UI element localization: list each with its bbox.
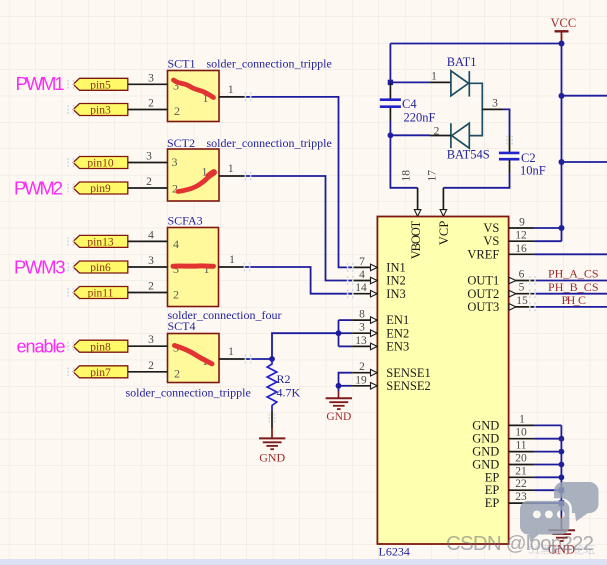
pin 1 GND stub — [509, 413, 535, 425]
junction GND11 — [559, 449, 565, 455]
svg-text:PWM3: PWM3 — [14, 257, 66, 278]
svg-text:IN1: IN1 — [386, 261, 405, 275]
svg-text:SCT1: SCT1 — [168, 57, 196, 71]
junction GND20 — [559, 462, 565, 468]
svg-text:3: 3 — [148, 334, 154, 346]
off-grid marker SCT4 out — [245, 355, 252, 364]
junction EN2 — [336, 330, 342, 336]
wire R2 to ground — [271, 411, 273, 438]
pin name EP (21) — [485, 470, 500, 484]
pin name EN2 — [386, 326, 409, 340]
wire GND1 to bus — [534, 424, 561, 426]
svg-text:pin10: pin10 — [87, 158, 113, 170]
pin name VREF — [467, 247, 499, 261]
bottom window strip — [0, 559, 607, 565]
wire EN1 stub — [339, 319, 353, 321]
pin stub SCT1.1 output — [219, 84, 246, 97]
off-grid marker OUT2 — [529, 289, 536, 298]
svg-text:EP: EP — [485, 470, 500, 484]
svg-text:pin7: pin7 — [90, 367, 111, 379]
svg-text:2: 2 — [359, 361, 365, 373]
pin 3 EN2 stub — [352, 322, 377, 337]
svg-text:PH_C: PH_C — [562, 293, 587, 307]
svg-text:solder_connection_tripple: solder_connection_tripple — [126, 386, 251, 400]
pin 4 IN2 stub — [352, 269, 377, 284]
pin stub BAT54S pin3 — [482, 97, 503, 109]
pin name IN1 — [386, 261, 405, 275]
wire top horizontal VCC to C4 branch — [390, 43, 561, 45]
junction C4 bottom / BAT54S pin2 — [388, 132, 394, 138]
wire C4 left rail top — [389, 44, 391, 83]
off-grid marker OUT1 — [529, 276, 536, 285]
svg-text:EN2: EN2 — [386, 326, 409, 340]
svg-text:GND: GND — [326, 411, 351, 423]
port pin13 — [73, 235, 128, 248]
svg-text:3: 3 — [148, 255, 154, 267]
svg-text:GND: GND — [472, 432, 499, 446]
wire EN3 stub — [339, 345, 353, 347]
pin name EP (22) — [485, 483, 500, 497]
label enable — [17, 337, 66, 357]
off-grid marker SCT2 out — [245, 172, 252, 181]
wire EP21 to bus — [534, 476, 561, 478]
wire pin10 to SCT2.3 — [128, 151, 168, 163]
junction GND10 — [559, 436, 565, 442]
pin 12 VS stub — [509, 230, 535, 242]
wire BAT1 pin1 — [390, 70, 451, 82]
red marker scribble on SCT1 — [174, 80, 214, 98]
solder jumper SCT2 — [167, 136, 219, 201]
svg-text:pin13: pin13 — [87, 237, 113, 249]
wire pin9 to SCT2.2 — [128, 176, 168, 188]
svg-text:BAT1: BAT1 — [447, 55, 477, 69]
svg-text:SENSE2: SENSE2 — [386, 379, 430, 393]
pin name SENSE2 — [386, 379, 430, 393]
red marker scribble on SCT2 — [178, 172, 214, 191]
svg-text:VCP: VCP — [437, 221, 451, 246]
watermark CSDN logo — [520, 482, 598, 542]
pin 23 EP stub — [509, 491, 535, 503]
svg-text:2: 2 — [148, 281, 154, 293]
off-grid marker port tip — [67, 80, 74, 89]
solder jumper SCFA3 — [168, 214, 219, 307]
svg-text:VS: VS — [483, 221, 499, 235]
pin 11 GND stub — [509, 440, 535, 452]
svg-text:PH_B_CS: PH_B_CS — [548, 280, 599, 294]
svg-text:SCFA3: SCFA3 — [168, 214, 203, 228]
wire pin8 to SCT4.3 — [128, 334, 168, 346]
off-grid marker IN1 — [347, 263, 354, 272]
wire SENSE2 stub — [339, 385, 353, 387]
pin name SENSE1 — [386, 366, 430, 380]
pin name VS (12) — [483, 234, 499, 248]
svg-text:1: 1 — [228, 346, 234, 358]
wire OUT1 net PH_A_CS — [534, 267, 607, 281]
svg-text:10: 10 — [515, 427, 527, 439]
svg-text:BAT54S: BAT54S — [447, 148, 490, 162]
off-grid marker port tip — [67, 184, 74, 193]
wire SCFA3.1 to IN3 — [245, 267, 352, 294]
wire GND10 to bus — [534, 438, 561, 440]
svg-text:1: 1 — [431, 70, 437, 82]
pin stub VBOOT (18) — [401, 170, 421, 217]
pin name OUT2 — [467, 287, 499, 301]
ground symbol at bus bottom — [549, 530, 575, 541]
svg-text:PWM1: PWM1 — [16, 73, 65, 94]
svg-text:21: 21 — [515, 465, 527, 477]
svg-text:4: 4 — [359, 269, 365, 281]
svg-text:IN3: IN3 — [386, 287, 405, 301]
junction VCC branch 2 — [559, 159, 565, 165]
pin name VS (9) — [483, 221, 499, 235]
pin name VBOOT — [409, 220, 423, 259]
watermark text — [446, 532, 594, 555]
svg-text:8: 8 — [359, 309, 365, 321]
label PWM2 — [14, 178, 63, 199]
svg-text:20: 20 — [515, 453, 527, 465]
comment solder_connection_tripple (SCT1) — [207, 57, 332, 71]
svg-text:1: 1 — [228, 84, 234, 96]
pin 7 IN1 stub — [352, 256, 377, 271]
off-grid marker C2 top — [506, 136, 513, 145]
svg-text:enable: enable — [17, 337, 66, 357]
off-grid marker port tip — [67, 105, 74, 114]
pin name GND (1) — [472, 418, 499, 432]
pin name GND (10) — [472, 432, 499, 446]
wire SCT1.1 to IN1 — [246, 97, 352, 268]
wire SCT2.1 to IN2 — [246, 176, 352, 281]
comment solder_connection_tripple (SCT4) — [126, 386, 251, 400]
pin 8 EN1 stub — [352, 309, 377, 324]
svg-text:10nF: 10nF — [520, 164, 546, 178]
red marker arrow scribble on SCFA3 — [173, 263, 214, 268]
label GND (bus ground) — [548, 543, 575, 557]
junction VCC top — [559, 41, 565, 47]
svg-text:2: 2 — [146, 176, 152, 188]
svg-text:3: 3 — [172, 155, 178, 169]
pin name VCP — [437, 221, 451, 246]
svg-text:GND: GND — [259, 451, 285, 465]
port pin6 — [73, 261, 128, 274]
svg-text:2: 2 — [148, 360, 154, 372]
off-grid marker IN2 — [347, 276, 354, 285]
wire left rail down to VBOOT — [390, 135, 417, 188]
junction at R2 tap — [269, 356, 275, 362]
off-grid marker SCFA3 out — [244, 263, 251, 272]
pin 5 OUT2 stub — [509, 282, 535, 297]
svg-text:SCT4: SCT4 — [168, 319, 196, 333]
svg-text:OUT3: OUT3 — [467, 300, 499, 314]
svg-text:1: 1 — [519, 413, 525, 425]
pin 6 OUT1 stub — [509, 269, 535, 284]
svg-text:R2: R2 — [277, 372, 291, 386]
junction C4 top / BAT1 anode — [388, 80, 393, 85]
svg-text:solder_connection_tripple: solder_connection_tripple — [207, 57, 332, 71]
off-grid marker port tip — [67, 158, 74, 167]
wire pin11 to SCFA3.2 — [128, 281, 168, 293]
wire EN2 stub — [339, 332, 353, 334]
svg-text:pin9: pin9 — [90, 183, 111, 195]
svg-text:VCC: VCC — [551, 16, 577, 30]
ground symbol at SENSE — [326, 398, 352, 409]
wire EN vertical bus — [338, 320, 340, 346]
wire EP22 to bus — [534, 489, 561, 491]
svg-text:3: 3 — [148, 73, 154, 85]
svg-text:pin6: pin6 — [90, 262, 111, 274]
junction EP21 — [559, 474, 565, 480]
pin name IN3 — [386, 287, 405, 301]
svg-text:6: 6 — [519, 269, 525, 281]
label PWM3 — [14, 257, 66, 278]
off-grid marker port tip — [67, 288, 74, 297]
wire pin6 to SCFA3.3 — [128, 255, 168, 267]
svg-text:15: 15 — [516, 295, 528, 307]
comment solder_connection_four (SCFA3) — [168, 308, 282, 322]
svg-text:17: 17 — [426, 170, 438, 182]
wire SCT4.1 to EN bus — [246, 333, 339, 359]
svg-text:pin3: pin3 — [90, 105, 111, 117]
svg-text:11: 11 — [515, 440, 526, 452]
pin 22 EP stub — [509, 478, 535, 490]
svg-text:VREF: VREF — [467, 247, 499, 261]
svg-text:VS: VS — [483, 234, 499, 248]
off-grid marker port tip — [67, 342, 74, 351]
svg-text:GND: GND — [472, 445, 499, 459]
wire GND11 to bus — [534, 451, 561, 453]
svg-text:22: 22 — [515, 478, 527, 490]
svg-text:SCT2: SCT2 — [167, 136, 195, 150]
junction VS9 — [559, 225, 565, 231]
port pin3 — [73, 104, 128, 117]
svg-text:1: 1 — [228, 163, 234, 175]
pin 14 IN3 stub — [352, 282, 377, 297]
watermark faint forum text — [528, 543, 595, 557]
svg-text:solder_connection_tripple: solder_connection_tripple — [207, 136, 332, 150]
op-amp driver IC U1 L6234 body — [377, 217, 508, 545]
label GND (R2 ground) — [259, 451, 285, 465]
capacitor C4 — [380, 82, 436, 124]
junction EP23 — [559, 500, 565, 506]
wire pin3 to SCT1.2 — [128, 98, 168, 110]
wire SENSE1 to SENSE2 to ground — [339, 373, 353, 398]
off-grid marker port tip — [67, 263, 74, 272]
wire VREF to edge — [534, 253, 607, 255]
solder jumper SCT1 — [168, 57, 220, 122]
svg-text:SENSE1: SENSE1 — [386, 366, 430, 380]
wire pin3 to C2 — [503, 109, 510, 136]
wire VCC branch right 1 — [562, 95, 607, 97]
off-grid marker R2 stem — [269, 414, 276, 423]
wire pin7 to SCT4.2 — [128, 360, 168, 372]
label PWM1 — [16, 73, 65, 94]
resistor R2 — [267, 359, 300, 411]
svg-text:EP: EP — [485, 496, 500, 510]
off-grid marker OUT3 — [529, 303, 536, 312]
svg-text:220nF: 220nF — [404, 111, 436, 125]
svg-text:C4: C4 — [402, 97, 417, 111]
power port VCC — [551, 16, 577, 44]
svg-text:19: 19 — [355, 374, 367, 386]
svg-text:GND: GND — [472, 418, 499, 432]
pin 16 VREF stub — [509, 243, 535, 255]
pin name IN2 — [386, 274, 405, 288]
svg-text:L6234: L6234 — [379, 545, 410, 559]
port pin11 — [73, 287, 128, 300]
svg-text:12: 12 — [515, 230, 527, 242]
svg-text:EN1: EN1 — [386, 313, 409, 327]
svg-text:2: 2 — [174, 367, 180, 381]
svg-text:1: 1 — [229, 254, 235, 266]
wire EP23 to bus — [534, 502, 561, 504]
port pin9 — [73, 182, 128, 195]
svg-text:VBOOT: VBOOT — [409, 220, 423, 259]
internal link BAT1 cathode to BAT54S anode — [469, 83, 482, 135]
svg-text:5: 5 — [519, 282, 525, 294]
pin 10 GND stub — [509, 427, 535, 439]
junction SENSE2 — [336, 383, 342, 389]
svg-text:7: 7 — [359, 256, 365, 268]
svg-text:EN3: EN3 — [386, 340, 409, 354]
wire VCC rail vertical — [561, 44, 563, 242]
svg-text:18: 18 — [401, 170, 413, 182]
pin name EN3 — [386, 340, 409, 354]
pin 19 SENSE2 stub — [352, 374, 377, 389]
svg-text:pin11: pin11 — [88, 288, 114, 300]
off-grid marker port tip — [67, 237, 74, 246]
pin stub VCP (17) — [426, 170, 446, 217]
wire OUT3 net PH_C — [534, 293, 607, 307]
port pin8 — [73, 340, 128, 353]
svg-text:2: 2 — [173, 288, 179, 302]
wire BAT54S pin2 — [390, 125, 451, 137]
svg-text:16: 16 — [515, 243, 527, 255]
pin 13 EN3 stub — [352, 335, 377, 350]
off-grid marker IN3 — [347, 289, 354, 298]
svg-text:4: 4 — [148, 230, 154, 242]
port pin5 — [73, 78, 128, 91]
wire OUT2 net PH_B_CS — [534, 280, 607, 294]
svg-text:3: 3 — [146, 151, 152, 163]
label BAT54S — [447, 148, 490, 162]
svg-text:3: 3 — [359, 322, 365, 334]
label GND (SENSE ground) — [326, 411, 351, 423]
pin name GND (11) — [472, 445, 499, 459]
pin 20 GND stub — [509, 453, 535, 465]
svg-text:PH_A_CS: PH_A_CS — [548, 267, 599, 281]
junction EP22 — [559, 487, 565, 493]
label L6234 — [379, 545, 410, 559]
junction VCC branch 1 — [559, 93, 565, 99]
svg-text:4.7K: 4.7K — [277, 386, 301, 400]
pin stub SCT2.1 output — [219, 163, 246, 176]
off-grid marker port tip — [67, 368, 74, 377]
svg-text:pin5: pin5 — [90, 80, 111, 92]
pin 9 VS stub — [509, 217, 535, 229]
diode BAT54S (bottom, pointing left) — [451, 123, 469, 148]
port pin7 — [73, 366, 128, 379]
wire C4 bottom to BAT54S row — [389, 121, 391, 135]
pin stub SCT4.1 output — [219, 346, 246, 359]
svg-text:9: 9 — [519, 217, 525, 229]
pin name OUT1 — [467, 274, 499, 288]
svg-text:51黑电子论坛: 51黑电子论坛 — [528, 543, 595, 557]
wire GND20 to bus — [534, 464, 561, 466]
off-grid marker SCT1 out — [245, 93, 252, 102]
svg-text:13: 13 — [355, 335, 367, 347]
svg-text:2: 2 — [148, 98, 154, 110]
solder jumper SCT4 — [168, 319, 220, 383]
svg-text:OUT2: OUT2 — [467, 287, 499, 301]
wire ground bus vertical — [560, 425, 562, 530]
svg-text:14: 14 — [355, 282, 367, 294]
svg-text:OUT1: OUT1 — [467, 274, 499, 288]
pin stub SCFA3.1 output — [219, 254, 246, 267]
ground symbol at R2 — [259, 438, 285, 449]
label BAT1 — [447, 55, 477, 69]
pin name EP (23) — [485, 496, 500, 510]
svg-text:2: 2 — [434, 125, 440, 137]
port pin10 — [73, 157, 128, 170]
svg-text:4: 4 — [173, 237, 179, 251]
svg-text:pin8: pin8 — [90, 341, 111, 353]
wire pin5 to SCT1.3 — [128, 73, 168, 85]
pin name OUT3 — [467, 300, 499, 314]
svg-text:PWM2: PWM2 — [14, 178, 63, 199]
pin 2 SENSE1 stub — [352, 361, 377, 376]
pin 21 EP stub — [509, 465, 535, 477]
red marker scribble on SCT4 — [175, 346, 213, 364]
svg-text:2: 2 — [174, 104, 180, 118]
diode BAT1 (top, pointing right) — [451, 71, 469, 97]
pin name GND (20) — [472, 458, 499, 472]
pin name EN1 — [386, 313, 409, 327]
wire VS12 to VCC rail — [534, 240, 561, 242]
wire VCC branch right 2 — [562, 161, 607, 163]
wire pin13 to SCFA3.4 — [128, 230, 168, 242]
wire VS9 to VCC rail — [534, 227, 561, 229]
svg-text:3: 3 — [492, 97, 498, 109]
capacitor C2 — [499, 136, 546, 178]
wire C2 bottom to VCP — [443, 173, 509, 188]
svg-text:EP: EP — [485, 483, 500, 497]
comment solder_connection_tripple (SCT2) — [207, 136, 332, 150]
pin 15 OUT3 stub — [509, 295, 535, 310]
svg-text:IN2: IN2 — [386, 274, 405, 288]
